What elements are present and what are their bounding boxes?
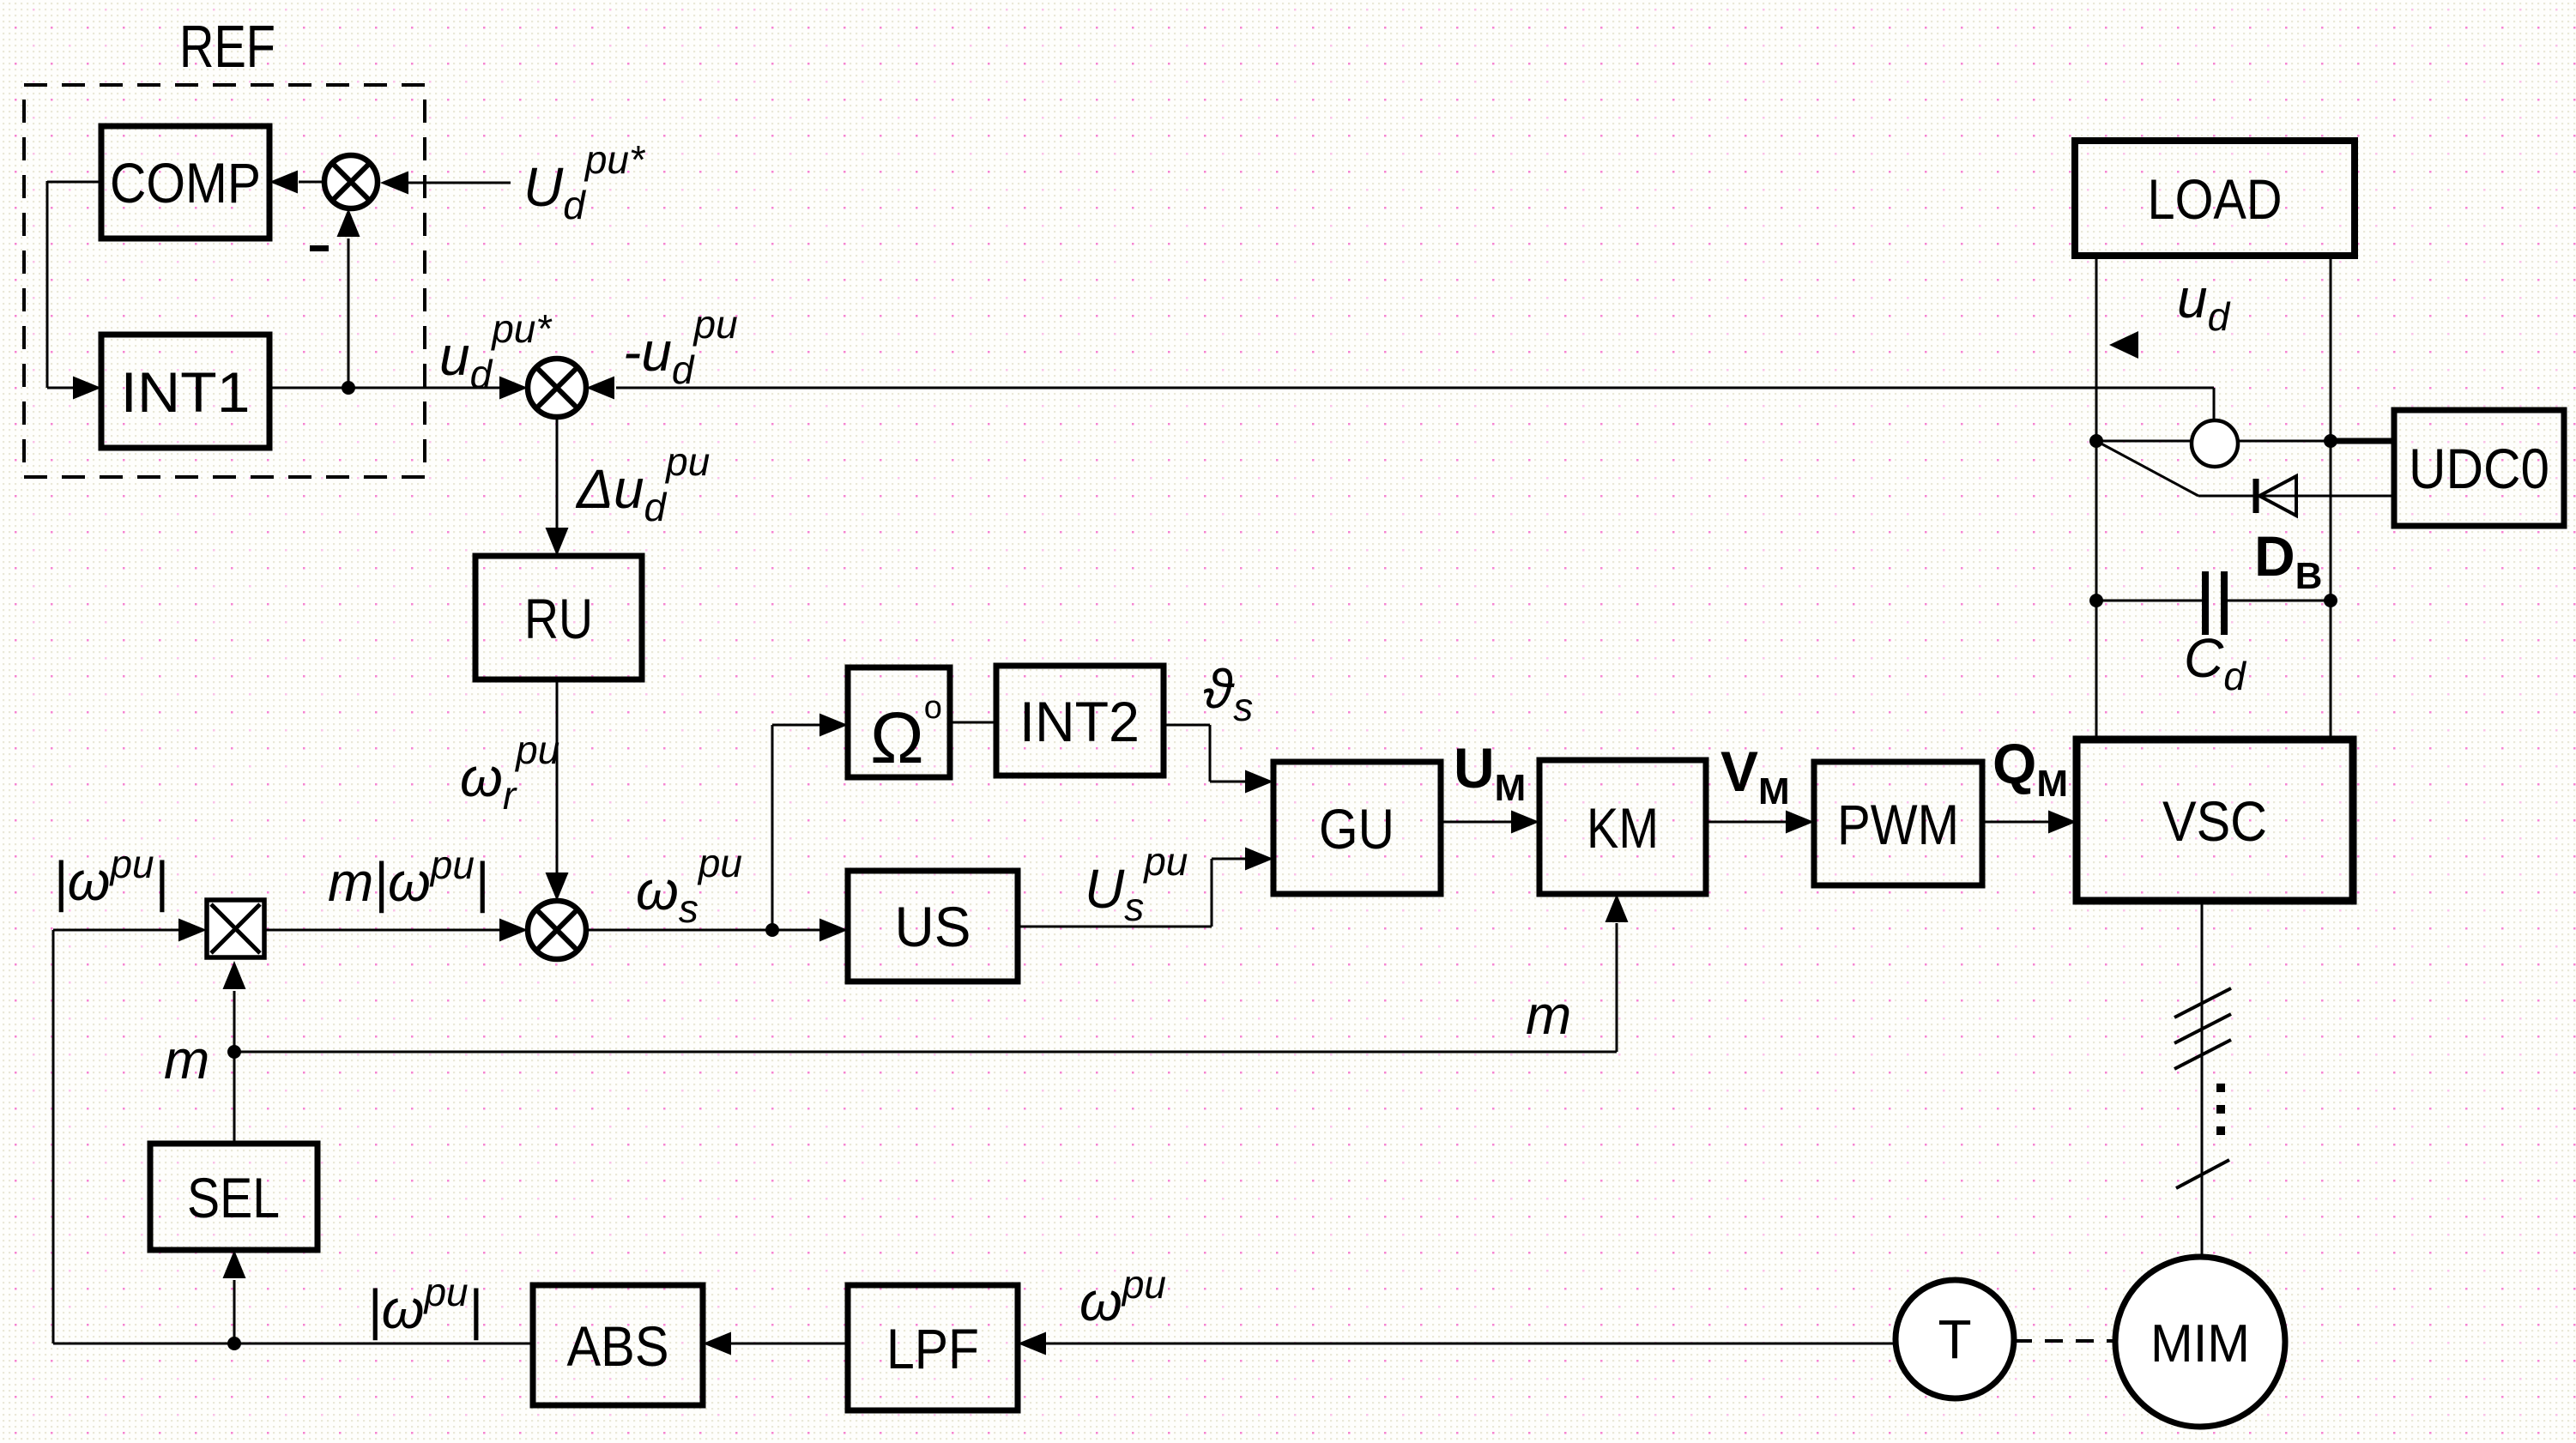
svg-text:m: m <box>1526 984 1571 1046</box>
svg-text:SEL: SEL <box>187 1166 280 1229</box>
capacitor C_d plates <box>2202 571 2209 635</box>
vertical ellipsis dots <box>2216 1084 2225 1092</box>
wire summing1 to COMP <box>299 181 324 184</box>
block LPF <box>848 1285 1018 1410</box>
wire VSC to MIM machine line <box>2201 901 2204 1258</box>
svg-text:PWM: PWM <box>1837 793 1959 856</box>
block Omega0 <box>848 667 950 777</box>
svg-text:T: T <box>1938 1308 1971 1370</box>
u_d direction arrowhead <box>2109 331 2138 359</box>
wire LPF to ABS <box>728 1343 848 1345</box>
node bottom junction <box>227 1337 241 1350</box>
wire COMP output to INT1 input <box>47 181 101 184</box>
svg-text:RU: RU <box>524 587 593 650</box>
summing junction S2 <box>528 359 586 417</box>
block KM <box>1539 760 1706 894</box>
wire US output (U_s_pu) to GU <box>1018 926 1212 928</box>
svg-text:REF: REF <box>179 13 275 80</box>
svg-text:GU: GU <box>1319 797 1394 860</box>
svg-text:COMP: COMP <box>110 151 261 214</box>
capacitor C_d wires <box>2096 600 2203 602</box>
wire long -u_d feedback from dc-link sensor <box>616 387 2214 389</box>
block GU <box>1273 762 1441 894</box>
wire multiplier output to summing3 <box>264 929 505 932</box>
wire diode branch to UDC0 <box>2198 495 2394 498</box>
three-phase slashes <box>2174 988 2231 1017</box>
svg-text:LPF: LPF <box>886 1317 979 1380</box>
REF dashed box <box>24 85 425 477</box>
svg-text:VSC: VSC <box>2162 789 2267 853</box>
wire m feedback to KM <box>234 1051 1617 1054</box>
wire T to LPF (omega_pu) <box>1043 1343 1896 1345</box>
node dc right top <box>2324 434 2337 448</box>
node omega_s junction <box>765 923 779 937</box>
wire SEL output up to multiplier <box>233 991 236 1144</box>
block SEL <box>150 1144 317 1250</box>
single phase slash <box>2176 1160 2229 1188</box>
svg-text:INT1: INT1 <box>121 360 251 424</box>
wire sensor link across dc rails <box>2096 440 2331 443</box>
summing junction S1 <box>324 155 378 208</box>
summing junction S3 <box>528 901 586 959</box>
svg-text:INT2: INT2 <box>1019 690 1140 753</box>
block INT1 <box>101 335 269 448</box>
motor circle MIM <box>2115 1257 2285 1427</box>
wire thick UDC0 feed <box>2331 438 2394 444</box>
wire Ud_pu* input <box>406 182 511 184</box>
svg-text:US: US <box>895 895 971 958</box>
svg-text:m: m <box>164 1029 209 1090</box>
multiplier M1 <box>207 900 264 957</box>
wire junction up into SEL <box>233 1280 236 1343</box>
wire Omega0 to INT2 <box>950 721 996 724</box>
block VSC <box>2077 740 2353 901</box>
wire ABS output to left corner <box>53 1343 533 1345</box>
node cap left <box>2089 594 2103 607</box>
wire INT2 output (theta_s) to GU <box>1164 724 1210 727</box>
wire |omega| into multiplier <box>52 930 55 1343</box>
block UDC0 <box>2394 410 2564 526</box>
voltage sensor circle <box>2192 420 2238 467</box>
wire S3 output to US and junction <box>586 929 824 932</box>
wire branch up to Omega0 <box>771 725 774 930</box>
wire dc-link left rail <box>2095 256 2098 740</box>
wire dc-link right rail <box>2330 256 2332 740</box>
wire KM to PWM <box>1706 821 1789 824</box>
block PWM <box>1814 762 1982 885</box>
node cap right <box>2324 594 2337 607</box>
block RU <box>475 556 642 679</box>
wire GU to KM <box>1441 821 1515 824</box>
tacho circle T <box>1896 1280 2014 1398</box>
svg-text:LOAD: LOAD <box>2148 167 2283 231</box>
wire minus feedback into S1 <box>348 238 350 388</box>
block ABS <box>533 1285 703 1405</box>
node m junction <box>227 1045 241 1059</box>
wire RU output to summing3 <box>556 679 559 875</box>
node INT1 output junction <box>342 381 355 395</box>
wire switch diagonal <box>2096 441 2198 496</box>
dashed shaft T to MIM <box>2014 1339 2115 1343</box>
wire S2 output to RU <box>556 417 559 528</box>
block LOAD <box>2075 141 2355 256</box>
diode D_B <box>2253 479 2259 513</box>
block INT2 <box>996 666 1164 776</box>
svg-text:KM: KM <box>1587 796 1659 860</box>
label minus sign <box>310 245 329 251</box>
node dc left top <box>2089 434 2103 448</box>
block US <box>848 871 1018 981</box>
svg-text:UDC0: UDC0 <box>2409 437 2549 500</box>
svg-text:ABS: ABS <box>567 1314 669 1378</box>
block COMP <box>101 126 269 238</box>
svg-text:MIM: MIM <box>2150 1314 2250 1374</box>
wire INT1 output to summing2 <box>269 387 505 389</box>
wire PWM to VSC <box>1982 821 2052 824</box>
